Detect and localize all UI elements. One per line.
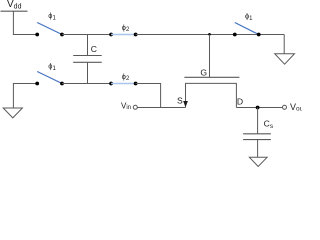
capacitor Cs top plate: [243, 133, 271, 135]
terminal Vout circle: [283, 105, 287, 109]
node dot: [60, 82, 64, 86]
node dot: [134, 82, 138, 86]
junction gate tap: [208, 33, 211, 36]
node dot: [134, 33, 138, 37]
svg-text:Vout: Vout: [290, 102, 302, 113]
svg-text:ϕ2: ϕ2: [122, 23, 130, 33]
capacitor C top lead: [87, 35, 89, 56]
capacitor Cs bottom lead: [257, 140, 259, 158]
node dot: [109, 33, 113, 37]
power rail Vdd bar: [1, 10, 28, 12]
wire top row segment: [62, 34, 111, 36]
capacitor C top plate: [73, 55, 102, 57]
ground lower-left symbol: [3, 108, 22, 118]
node dot: [109, 82, 113, 86]
transistor channel: [186, 83, 237, 107]
ground top-right: [275, 54, 295, 64]
terminal Vin circle: [133, 105, 137, 109]
svg-text:ϕ2: ϕ2: [122, 72, 130, 82]
node dot: [233, 33, 237, 37]
capacitor Cs top lead: [257, 108, 259, 134]
source arrow: [183, 101, 188, 107]
transistor gate plate: [184, 76, 239, 78]
wire drain to Vout: [236, 107, 282, 109]
switch phi1 top-right open arm: [235, 23, 259, 35]
wire row2 segment: [62, 83, 111, 85]
transistor gate lead: [209, 35, 211, 78]
switch phi1 lower-left open arm: [37, 72, 62, 84]
wire from lower-left ground up and right: [13, 84, 37, 109]
switch phi2 top closed segment: [111, 34, 136, 36]
svg-text:Vdd: Vdd: [7, 0, 22, 10]
svg-text:C: C: [91, 44, 97, 54]
switch phi1 top-left open arm: [37, 23, 62, 35]
capacitor C bottom lead: [87, 62, 89, 83]
node dot top-left switch contact: [35, 33, 39, 37]
node dot drain/cap junction: [256, 106, 260, 110]
wire Vin to source S: [137, 107, 185, 109]
node dot: [60, 33, 64, 37]
node dot: [35, 82, 39, 86]
svg-text:D: D: [237, 97, 243, 107]
wire down to top-right ground: [283, 35, 285, 54]
capacitor C bottom plate: [73, 61, 102, 63]
wire row2 to corner down to Vin rail: [136, 84, 161, 108]
wire top row segment to right: [136, 34, 285, 36]
svg-text:ϕ1: ϕ1: [245, 11, 253, 22]
switch phi2 row2 closed segment: [111, 83, 136, 85]
svg-text:ϕ1: ϕ1: [48, 62, 56, 73]
ground bottom-right: [249, 157, 267, 166]
wire from Vdd rail down and right: [13, 11, 37, 34]
svg-text:ϕ1: ϕ1: [48, 11, 56, 22]
svg-text:S: S: [177, 96, 183, 106]
svg-text:Vin: Vin: [121, 101, 131, 111]
node dot: [257, 33, 261, 37]
capacitor Cs bottom plate: [243, 139, 271, 141]
svg-text:Cs: Cs: [264, 118, 274, 129]
svg-text:G: G: [200, 67, 207, 77]
